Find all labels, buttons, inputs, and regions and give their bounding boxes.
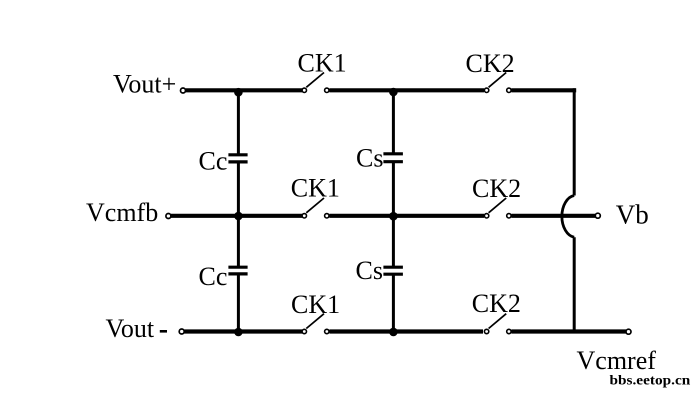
switch CK1 bottom: right contact xyxy=(325,329,329,333)
wire mid rail right segment to Vb xyxy=(511,214,595,218)
svg-text:Cc: Cc xyxy=(199,147,228,176)
switch CK1 middle: right contact xyxy=(325,214,329,218)
switch CK1 top: blade xyxy=(306,73,324,88)
svg-text:CK1: CK1 xyxy=(291,290,340,319)
terminal Vout- xyxy=(179,329,184,334)
wire top rail middle segment xyxy=(329,88,484,92)
svg-text:Vout: Vout xyxy=(106,314,155,343)
node junction top-left xyxy=(234,88,243,97)
capacitor Cs upper: bottom plate xyxy=(383,160,403,163)
node junction mid-middle xyxy=(389,212,398,221)
terminal Vb xyxy=(595,213,600,218)
switch CK2 top: right contact xyxy=(507,88,511,92)
wire middle column: mid rail to Cs lower xyxy=(392,216,395,267)
wire bottom rail right segment to Vcmref xyxy=(511,329,626,333)
node junction top-middle xyxy=(389,88,398,97)
capacitor Cc lower: bottom plate xyxy=(228,272,247,275)
switch CK1 top: right contact xyxy=(325,88,329,92)
switch CK1 bottom: blade xyxy=(306,314,324,329)
capacitor Cc lower: top plate xyxy=(228,266,247,269)
svg-text:CK2: CK2 xyxy=(472,289,521,318)
wire mid rail left segment xyxy=(171,214,302,218)
svg-text:Vcmfb: Vcmfb xyxy=(86,198,158,227)
switch CK1 bottom: left contact xyxy=(302,329,306,333)
terminal Vcmref xyxy=(626,329,631,334)
capacitor Cc upper: bottom plate xyxy=(228,160,247,163)
wire left column: Cc lower to bottom rail xyxy=(237,274,240,332)
svg-text:Cs: Cs xyxy=(356,256,383,285)
wire left column: mid rail to Cc lower xyxy=(237,216,240,267)
switch CK2 top: left contact xyxy=(484,88,488,92)
capacitor Cc upper: top plate xyxy=(228,153,247,156)
terminal Vcmfb xyxy=(166,214,171,219)
wire mid rail middle segment xyxy=(329,214,484,218)
svg-text:bbs.eetop.cn: bbs.eetop.cn xyxy=(610,373,691,388)
svg-text:Vout+: Vout+ xyxy=(113,70,176,99)
wire middle column: top rail to Cs upper xyxy=(392,90,395,154)
wire top rail right segment xyxy=(511,88,576,92)
label Vout- dash xyxy=(160,330,167,333)
switch CK2 middle: right contact xyxy=(507,214,511,218)
svg-text:CK2: CK2 xyxy=(472,174,521,203)
switch CK1 top: left contact xyxy=(302,88,306,92)
capacitor Cs upper: top plate xyxy=(383,152,403,155)
wire top rail left segment xyxy=(186,88,302,92)
switch CK1 middle: left contact xyxy=(302,214,306,218)
wire hop arc over mid rail xyxy=(562,196,574,238)
wire left column: top rail to Cc upper xyxy=(237,90,240,154)
switch CK2 bottom: left contact xyxy=(484,329,488,333)
svg-text:Vb: Vb xyxy=(616,200,649,230)
terminal Vout+ xyxy=(181,88,186,93)
capacitor Cs lower: bottom plate xyxy=(383,273,403,276)
switch CK2 middle: blade xyxy=(489,198,507,213)
switch CK1 middle: blade xyxy=(306,198,324,213)
switch CK2 middle: left contact xyxy=(484,214,488,218)
wire bottom rail left segment xyxy=(184,329,302,333)
svg-text:CK1: CK1 xyxy=(291,174,340,203)
wire middle column: Cs lower to bottom rail xyxy=(392,274,395,331)
wire bottom rail middle segment xyxy=(329,329,483,333)
svg-text:CK2: CK2 xyxy=(466,49,515,78)
switch CK2 top: blade xyxy=(489,73,507,88)
wire left column: Cc upper to mid rail xyxy=(237,162,240,216)
node junction mid-left xyxy=(234,212,243,221)
svg-text:Cs: Cs xyxy=(356,144,383,173)
svg-text:Vcmref: Vcmref xyxy=(577,346,657,375)
wire right vertical upper segment xyxy=(573,88,576,195)
switch CK2 bottom: right contact xyxy=(507,329,511,333)
node junction bottom-middle xyxy=(389,328,398,337)
wire middle column: Cs upper to mid rail xyxy=(392,162,395,216)
switch CK2 bottom: blade xyxy=(489,314,507,329)
capacitor Cs lower: top plate xyxy=(383,266,403,269)
node junction bottom-left xyxy=(234,328,243,337)
svg-text:Cc: Cc xyxy=(199,262,228,291)
wire right vertical lower segment xyxy=(573,237,576,333)
